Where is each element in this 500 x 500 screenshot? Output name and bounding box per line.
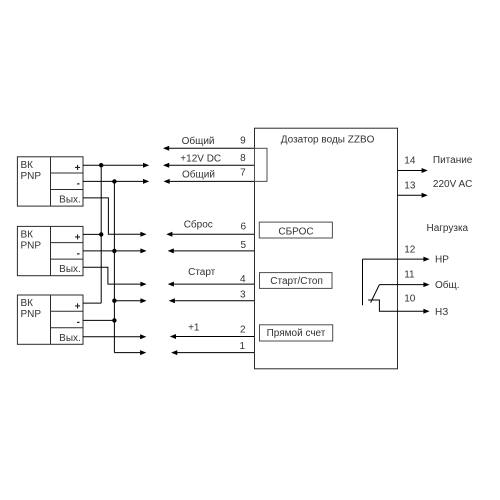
svg-text:10: 10 [404, 293, 416, 304]
svg-text:Вых.: Вых. [59, 195, 81, 206]
svg-text:Общий: Общий [182, 135, 215, 147]
svg-text:+: + [75, 163, 81, 174]
svg-text:ВК: ВК [21, 298, 34, 309]
svg-text:НЗ: НЗ [435, 307, 448, 318]
svg-text:ВК: ВК [21, 230, 34, 241]
svg-text:Общ.: Общ. [435, 279, 460, 291]
svg-text:Вых.: Вых. [59, 264, 81, 275]
svg-text:12: 12 [404, 244, 416, 255]
svg-text:Дозатор воды ZZBO: Дозатор воды ZZBO [281, 135, 375, 146]
svg-text:СБРОС: СБРОС [278, 227, 313, 238]
svg-text:PNP: PNP [21, 241, 42, 252]
svg-text:+12V DC: +12V DC [180, 153, 221, 164]
svg-text:9: 9 [240, 135, 246, 146]
svg-text:+1: +1 [188, 323, 200, 334]
svg-text:14: 14 [404, 155, 416, 166]
svg-text:НР: НР [435, 255, 449, 266]
svg-text:+: + [75, 301, 81, 312]
svg-text:Нагрузка: Нагрузка [427, 223, 469, 234]
svg-text:ВК: ВК [21, 160, 34, 171]
svg-text:5: 5 [240, 240, 246, 251]
svg-text:Сброс: Сброс [184, 219, 213, 231]
svg-text:-: - [77, 179, 80, 190]
svg-text:220V AC: 220V AC [433, 179, 472, 190]
svg-text:+: + [75, 233, 81, 244]
svg-text:8: 8 [240, 153, 246, 164]
svg-text:PNP: PNP [21, 171, 42, 182]
svg-text:13: 13 [404, 181, 416, 192]
svg-text:Общий: Общий [182, 168, 215, 180]
svg-text:-: - [77, 248, 80, 259]
svg-text:Вых.: Вых. [59, 333, 81, 344]
svg-text:Прямой счет: Прямой счет [267, 328, 326, 339]
svg-text:2: 2 [240, 325, 246, 336]
svg-text:7: 7 [240, 167, 246, 178]
svg-text:1: 1 [239, 341, 245, 352]
svg-text:-: - [77, 317, 80, 328]
svg-text:4: 4 [240, 274, 246, 285]
svg-text:6: 6 [240, 222, 246, 233]
svg-text:Питание: Питание [433, 155, 473, 166]
svg-text:Старт: Старт [188, 267, 216, 278]
svg-text:PNP: PNP [21, 309, 42, 320]
svg-text:3: 3 [240, 290, 246, 301]
svg-text:Старт/Стоп: Старт/Стоп [270, 276, 323, 287]
svg-text:11: 11 [404, 269, 415, 280]
